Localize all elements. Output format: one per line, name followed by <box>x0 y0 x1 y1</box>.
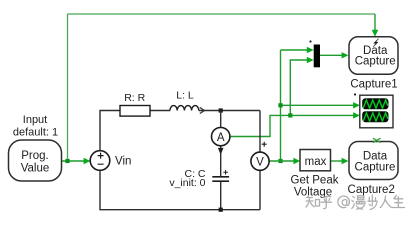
capacitor C <box>212 177 229 181</box>
wire black: L arrow to node <box>199 110 260 112</box>
inductor L <box>170 106 199 111</box>
svg-text:Capture: Capture <box>355 56 396 68</box>
wire green: A bus branch up to mux input 2 <box>290 60 309 115</box>
ammeter A <box>212 127 230 145</box>
voltage source Vin <box>90 151 110 171</box>
wire green: A-meter output <box>230 115 355 136</box>
wire black: bottom rail <box>100 170 260 210</box>
svg-text:Value: Value <box>21 163 50 175</box>
voltmeter V <box>251 152 269 170</box>
watermark 知乎 @漫步人生 <box>306 195 405 209</box>
block Data Capture (Capture1) <box>349 37 398 75</box>
wire green: to mux input 1 <box>281 49 310 51</box>
svg-text:Vin: Vin <box>115 156 131 168</box>
wire black: node down to A-meter <box>220 111 222 128</box>
node junction at Prog.Value output <box>65 159 69 163</box>
svg-text:max: max <box>305 156 327 168</box>
svg-text:Prog.: Prog. <box>21 150 49 162</box>
wire green: Prog.Value output to Vin <box>62 160 86 162</box>
wire black: right branch down to V-meter <box>259 111 261 153</box>
wire green: drop into Data Capture1 top <box>374 14 376 32</box>
scope trace 1 <box>363 100 388 108</box>
svg-text:v_init: 0: v_init: 0 <box>169 177 205 189</box>
resistor R <box>120 106 150 117</box>
svg-text:Capture2: Capture2 <box>348 184 395 196</box>
svg-text:A: A <box>217 132 225 144</box>
wire green: max output to Data Capture2 <box>331 160 344 162</box>
scope <box>360 95 393 128</box>
block Prog. Value <box>9 140 62 181</box>
node junction on V bus at V output wire <box>278 159 282 163</box>
svg-text:Capture1: Capture1 <box>350 79 397 91</box>
svg-text:L: L: L: L <box>176 90 194 102</box>
svg-text:default: 1: default: 1 <box>13 127 58 139</box>
scope trace 2 <box>363 113 388 121</box>
wire black: V-meter down to bottom rail <box>259 170 261 210</box>
block Data Capture (Capture2) <box>349 142 398 180</box>
svg-text:V: V <box>256 156 264 168</box>
wire black: A-meter to capacitor <box>220 146 222 176</box>
svg-text:Get Peak: Get Peak <box>291 175 339 187</box>
node junction bottom rail at capacitor <box>219 208 223 212</box>
current arrow below A-meter <box>218 148 224 155</box>
wire black: top rail Vin to R <box>100 111 120 151</box>
wire green feedback: horizontal top run <box>68 13 376 15</box>
mux <box>314 45 320 68</box>
wire green: V-meter output bus (vertical x=281 from mux in1 down to V wire) <box>280 50 282 161</box>
tick dot near mux <box>309 40 311 42</box>
wire green: to scope input 1 <box>281 104 356 106</box>
svg-text:R: R: R: R <box>124 92 145 104</box>
node junction on A bus <box>288 113 292 117</box>
trigger bolt icon <box>373 39 379 47</box>
wire green feedback: vertical from Prog.Value junction up <box>67 14 69 161</box>
block max <box>300 150 331 171</box>
wire black: capacitor to bottom rail <box>220 181 222 210</box>
wire black: R to L <box>150 110 170 112</box>
unconnected port X on Capture2 top <box>373 138 381 142</box>
wire green: mux output to Data Capture1 <box>320 54 343 56</box>
svg-text:Capture: Capture <box>355 162 396 174</box>
current direction arrow after L <box>200 108 205 114</box>
node junction top node <box>219 108 223 112</box>
svg-text:Input: Input <box>23 114 47 126</box>
wire green: V output to max block <box>269 160 295 162</box>
node junction on V bus at scope branch <box>278 103 282 107</box>
tick dot near scope <box>354 93 356 95</box>
